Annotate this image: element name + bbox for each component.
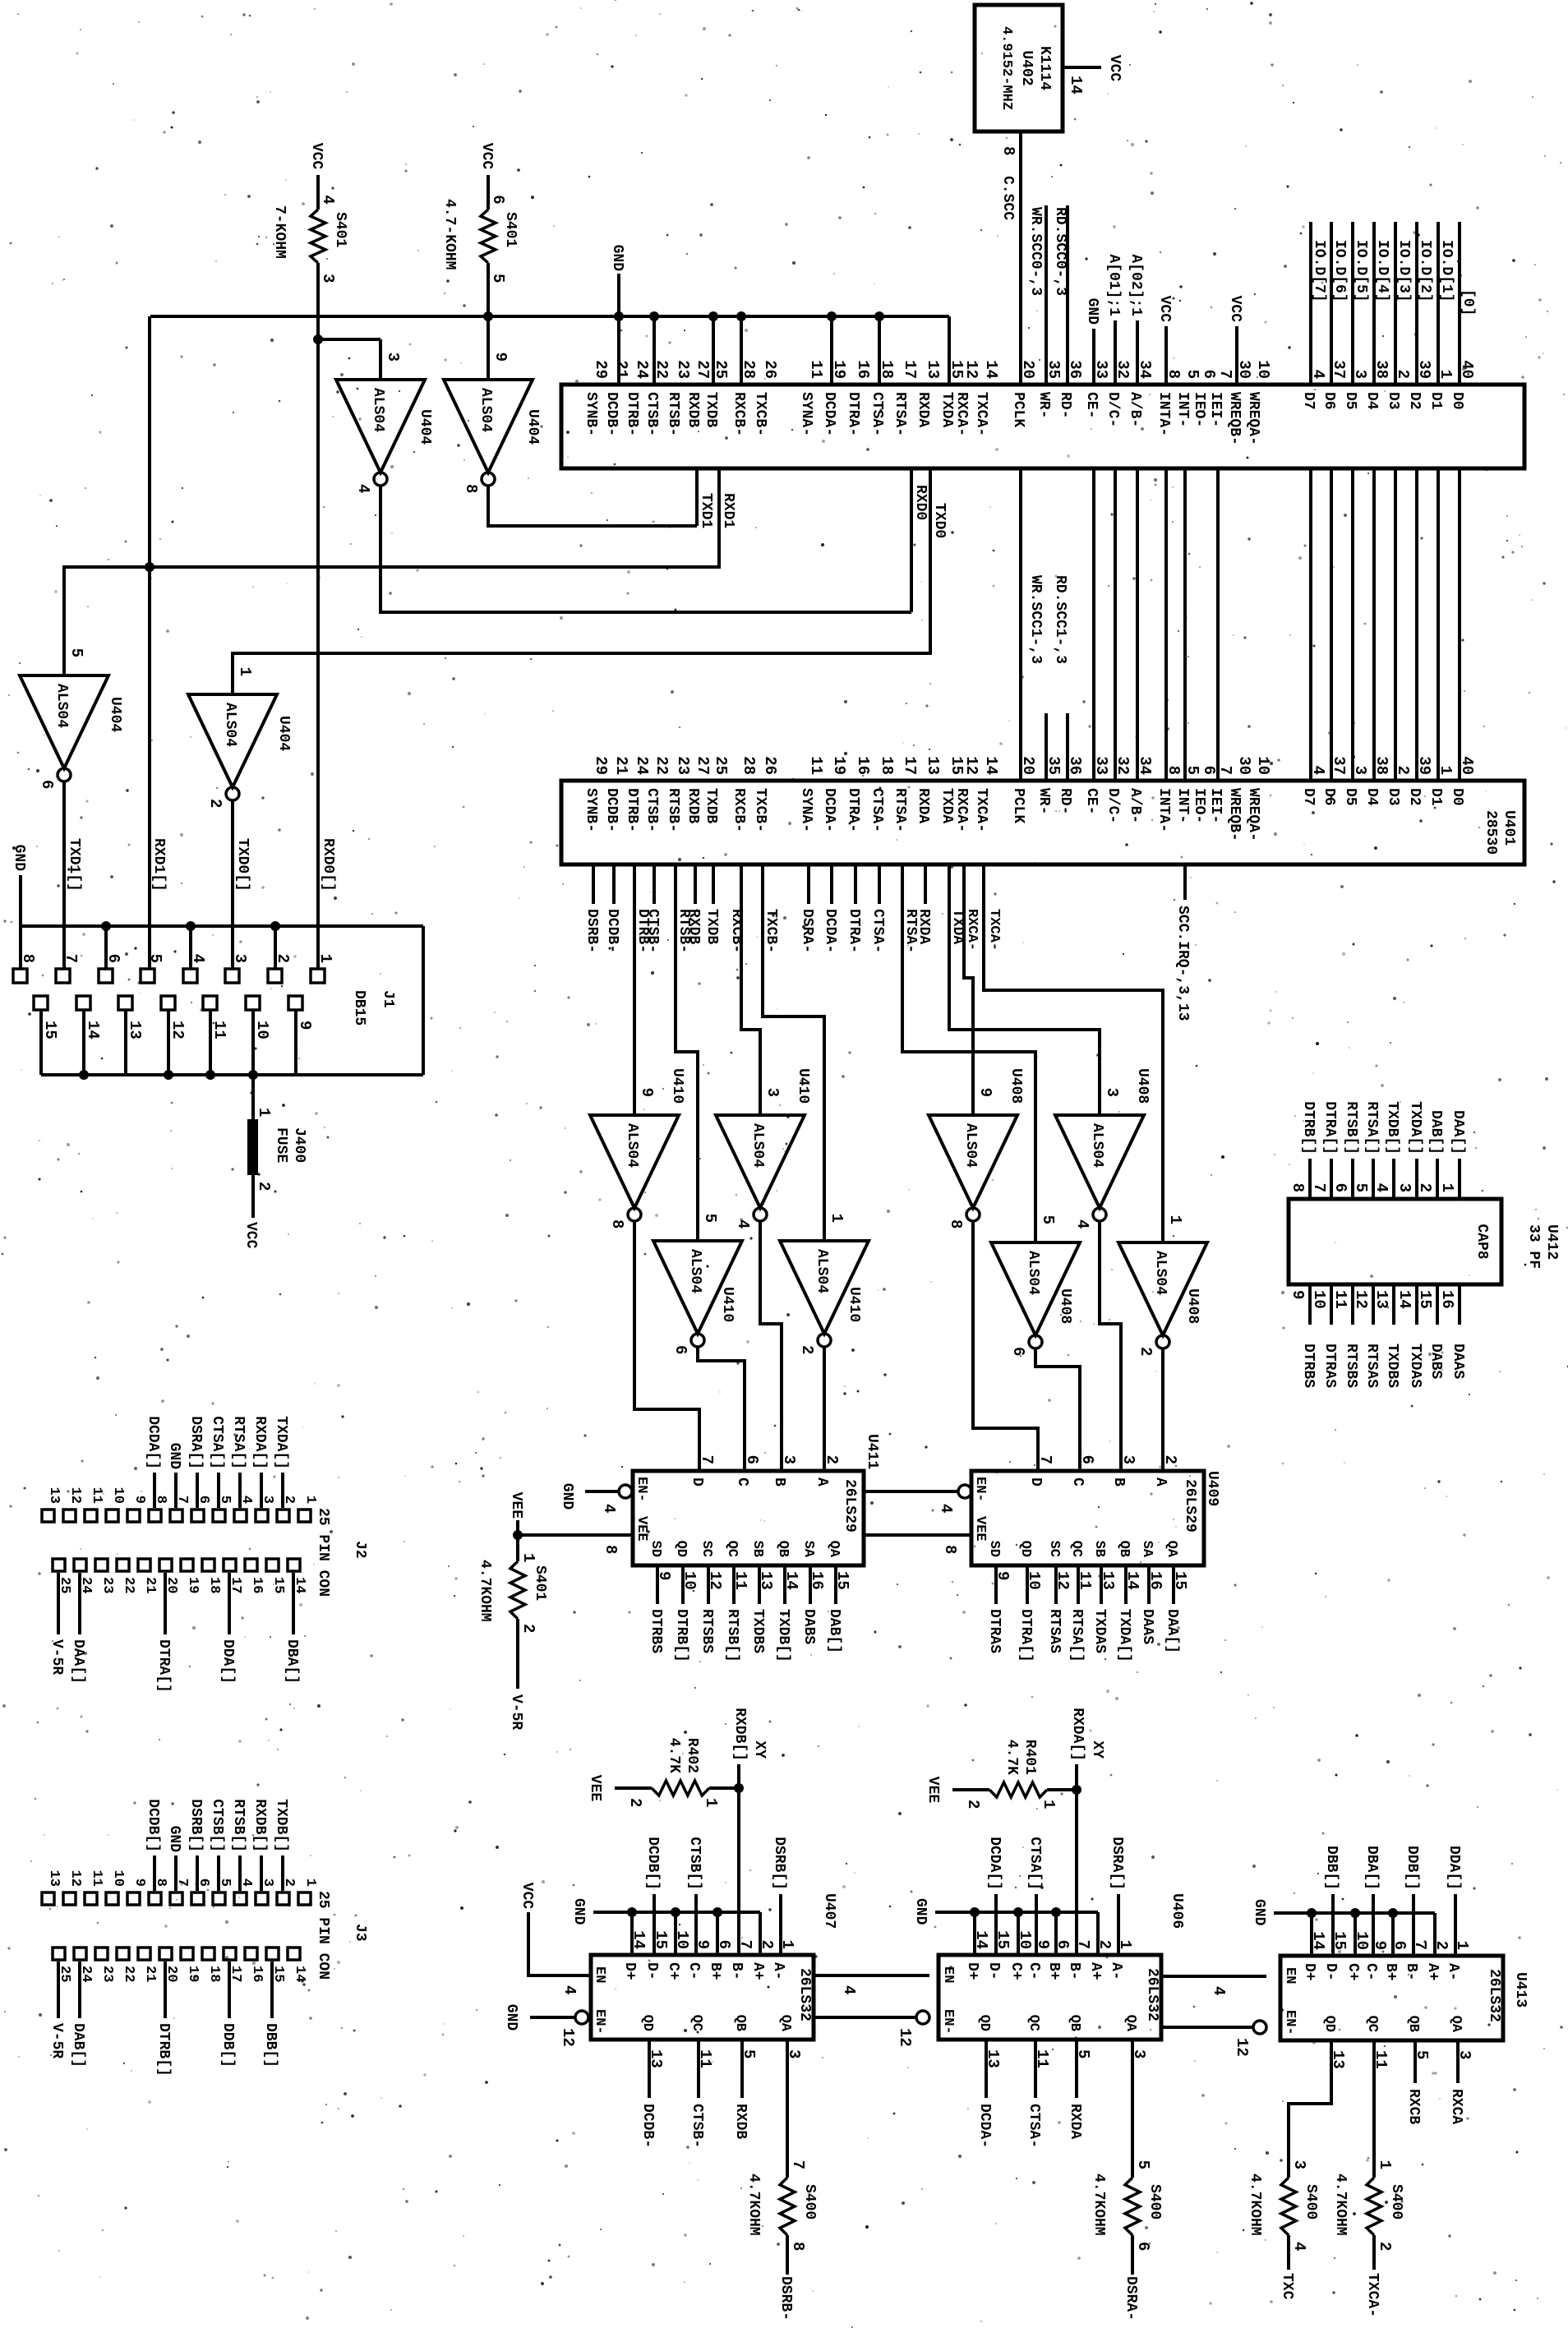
svg-text:DABS: DABS	[1427, 1344, 1444, 1379]
svg-text:RXDB: RXDB	[685, 392, 701, 427]
wire gate D output TXD0[] to J1 pin3	[233, 800, 251, 968]
svg-text:21: 21	[142, 1577, 158, 1593]
svg-text:CTSA-: CTSA-	[869, 392, 885, 436]
svg-text:GND: GND	[609, 245, 625, 272]
svg-text:D: D	[689, 1477, 705, 1487]
wire U413 EN pin 4 chained to U406	[1161, 1976, 1266, 1995]
svg-text:VCC: VCC	[242, 1222, 259, 1249]
svg-text:12: 12	[67, 1870, 83, 1887]
svg-text:IO.D[2]: IO.D[2]	[1417, 240, 1433, 302]
svg-text:DSRA-: DSRA-	[799, 909, 815, 953]
svg-text:D0: D0	[1449, 788, 1465, 806]
svg-text:DTRB[]: DTRB[]	[155, 2023, 172, 2077]
wire TXDA from SCC2 to U408-B input	[949, 865, 1100, 1115]
svg-text:EN-: EN-	[1282, 2010, 1298, 2035]
svg-text:2: 2	[964, 1800, 982, 1809]
svg-text:4: 4	[1372, 1183, 1390, 1192]
connector J2 row1 pins 1-13	[42, 1416, 318, 1522]
svg-text:DCDA-: DCDA-	[822, 909, 838, 953]
svg-text:DBA[]: DBA[]	[284, 1639, 300, 1684]
svg-text:11: 11	[731, 1571, 749, 1590]
svg-text:RXDA: RXDA	[1067, 2104, 1083, 2139]
svg-text:5: 5	[489, 274, 507, 283]
svg-text:S401: S401	[502, 212, 519, 247]
svg-text:13: 13	[1372, 1290, 1390, 1309]
svg-text:D7: D7	[1300, 392, 1317, 410]
svg-text:SB: SB	[1091, 1541, 1107, 1557]
svg-text:TXCA-: TXCA-	[973, 392, 989, 436]
svg-text:RXD0: RXD0	[912, 485, 929, 520]
svg-text:16: 16	[854, 756, 872, 775]
svg-text:11: 11	[1331, 1290, 1349, 1309]
IC U401 SCC chip body #2 (28530)	[561, 781, 1524, 864]
connector J1 row2 pin squares 9-15	[34, 996, 314, 1080]
node RD.SCC0-;3 to pin 36 RD- of SCC1	[1052, 205, 1068, 385]
svg-text:RXCA-: RXCA-	[953, 392, 970, 436]
svg-text:U413: U413	[1512, 1972, 1529, 2008]
svg-text:5: 5	[67, 648, 85, 657]
svg-text:8: 8	[947, 1219, 965, 1229]
svg-text:C-: C-	[685, 1962, 702, 1980]
svg-text:D-: D-	[643, 1962, 660, 1980]
svg-text:U410: U410	[669, 1068, 685, 1104]
connector J1 DB15 outline	[21, 926, 423, 1075]
svg-text:TXDB: TXDB	[703, 788, 719, 823]
inverter U404 gate B pins 9-8	[444, 353, 541, 494]
svg-text:4: 4	[560, 1985, 579, 1994]
svg-text:WREQA-: WREQA-	[1245, 392, 1261, 445]
svg-text:VCC: VCC	[1227, 296, 1243, 323]
svg-text:D/C-: D/C-	[1105, 788, 1121, 823]
svg-text:TXD0[]: TXD0[]	[234, 838, 251, 892]
svg-text:4: 4	[319, 195, 337, 204]
svg-text:1: 1	[236, 667, 254, 676]
svg-text:DCDA-: DCDA-	[821, 392, 837, 436]
svg-text:RD-: RD-	[1057, 392, 1073, 418]
svg-text:D-: D-	[985, 1962, 1002, 1980]
svg-text:QC: QC	[1026, 2015, 1041, 2031]
svg-text:8: 8	[941, 1545, 959, 1554]
svg-text:INTA-: INTA-	[1155, 392, 1172, 436]
svg-text:VCC: VCC	[1156, 296, 1173, 323]
svg-text:DB15: DB15	[351, 990, 367, 1026]
svg-text:CTSA-: CTSA-	[1026, 2104, 1042, 2148]
svg-text:25 PIN CON: 25 PIN CON	[315, 1891, 331, 1980]
svg-text:1: 1	[255, 1108, 273, 1117]
node RXD0[] label on J1 pin1 line	[320, 838, 336, 892]
wire U410-C output to U411 pin C	[698, 1347, 745, 1471]
svg-text:18: 18	[206, 1577, 222, 1593]
svg-text:RTSA[]: RTSA[]	[230, 1416, 247, 1469]
svg-text:IEO-: IEO-	[1191, 788, 1207, 823]
svg-text:4: 4	[937, 1504, 955, 1513]
svg-text:DCDA[]: DCDA[]	[145, 1416, 161, 1469]
svg-text:QD: QD	[673, 1541, 689, 1557]
svg-text:IO.D[3]: IO.D[3]	[1395, 240, 1412, 302]
connector J3 25 PIN CON	[315, 1891, 368, 1980]
resistor R401 4.7K with XY node to U406 B-	[925, 1708, 1105, 1955]
svg-text:30: 30	[1235, 756, 1253, 775]
svg-text:9: 9	[131, 1496, 147, 1504]
svg-text:DAB[]: DAB[]	[826, 1609, 842, 1653]
svg-text:[0]: [0]	[1460, 289, 1476, 316]
svg-text:RTSB[]: RTSB[]	[230, 1799, 247, 1852]
svg-text:CE-: CE-	[1083, 392, 1100, 418]
svg-text:12: 12	[706, 1571, 724, 1590]
wire TXD1 stub from SCC1 to gate B output	[697, 468, 714, 528]
svg-text:S400: S400	[1303, 2184, 1319, 2220]
svg-text:C-: C-	[1026, 1962, 1042, 1980]
resistor S400 4.7KOHM pins 5-6 on U406 QA to DSRA-	[1091, 2040, 1163, 2321]
svg-text:WR.SCC1-,3: WR.SCC1-,3	[1027, 575, 1044, 664]
svg-text:DTRBS: DTRBS	[648, 1609, 664, 1653]
svg-text:12: 12	[1054, 1571, 1072, 1590]
svg-text:RXCB: RXCB	[1405, 2089, 1422, 2124]
svg-text:19: 19	[185, 1966, 201, 1982]
svg-text:ALS04: ALS04	[370, 388, 386, 432]
svg-text:RTSB-: RTSB-	[665, 788, 681, 832]
svg-text:12: 12	[67, 1487, 83, 1504]
svg-text:U404: U404	[524, 409, 541, 445]
svg-text:6: 6	[1331, 1183, 1349, 1192]
svg-text:4.7KOHM: 4.7KOHM	[1332, 2174, 1349, 2236]
svg-text:DAB[]: DAB[]	[1427, 1110, 1444, 1155]
resistor R402 4.7K with XY node to U407 B-	[587, 1708, 768, 1955]
svg-text:V-5R: V-5R	[508, 1694, 524, 1730]
svg-text:TXCB-: TXCB-	[752, 392, 768, 436]
svg-text:3: 3	[780, 1455, 798, 1464]
svg-text:QB: QB	[1067, 2015, 1082, 2031]
svg-text:B+: B+	[1045, 1962, 1062, 1980]
svg-text:EN-: EN-	[972, 1477, 988, 1502]
svg-text:RTSA[]: RTSA[]	[1068, 1609, 1085, 1662]
svg-text:9: 9	[1289, 1290, 1307, 1299]
inverter U410 gate D pins 1-2	[780, 1214, 869, 1355]
wire RTSB- from SCC2 to U410-C input	[676, 865, 698, 1241]
svg-text:9: 9	[976, 1088, 994, 1097]
wire gate B output to TXD1 stub of SCC1	[488, 486, 697, 526]
svg-text:C: C	[734, 1477, 750, 1487]
svg-text:VEE: VEE	[508, 1492, 524, 1519]
svg-text:QC: QC	[724, 1541, 740, 1557]
svg-text:4.7-KOHM: 4.7-KOHM	[441, 199, 458, 270]
svg-text:QD: QD	[1321, 2016, 1337, 2032]
svg-text:INTA-: INTA-	[1155, 788, 1172, 832]
svg-text:U410: U410	[795, 1068, 811, 1104]
svg-text:ALS04: ALS04	[749, 1123, 766, 1168]
svg-text:D: D	[1027, 1477, 1044, 1487]
svg-text:RXDB: RXDB	[732, 2104, 749, 2139]
svg-text:5: 5	[1134, 2160, 1152, 2169]
input net labels of U407	[644, 1837, 787, 1955]
wire data bus IO.D[0..7] segments	[1311, 222, 1460, 781]
svg-text:QB: QB	[732, 2015, 748, 2031]
svg-text:DSRB[]: DSRB[]	[771, 1837, 787, 1890]
svg-text:D2: D2	[1406, 788, 1423, 806]
svg-text:RXDA[]: RXDA[]	[1069, 1708, 1086, 1761]
svg-text:GND: GND	[166, 1826, 182, 1853]
svg-text:13: 13	[46, 1487, 62, 1504]
svg-text:26LS29: 26LS29	[842, 1479, 858, 1533]
svg-text:14: 14	[292, 1966, 307, 1982]
resistor S401 4.7-KOHM pullup on gate U404-9 input	[441, 143, 519, 380]
svg-text:9: 9	[994, 1571, 1012, 1580]
svg-text:VCC: VCC	[519, 1883, 535, 1910]
svg-text:IO.D[6]: IO.D[6]	[1331, 240, 1348, 302]
svg-text:4.7KOHM: 4.7KOHM	[745, 2174, 762, 2236]
svg-text:10: 10	[1025, 1571, 1043, 1590]
wire U410-B output to U411 pin B	[760, 1221, 782, 1471]
svg-text:C-: C-	[1363, 1963, 1379, 1981]
svg-text:ALS04: ALS04	[53, 684, 70, 728]
svg-text:QB: QB	[1116, 1541, 1132, 1557]
capacitor pack U412 CAP8 33 PF	[1289, 1199, 1560, 1284]
wire gate C output TXD1[] to J1 pin7	[64, 781, 82, 968]
svg-text:5: 5	[1039, 1215, 1057, 1224]
svg-text:29: 29	[592, 756, 610, 775]
svg-text:CTSB[]: CTSB[]	[209, 1799, 225, 1852]
svg-text:RD.SCC1-,3: RD.SCC1-,3	[1052, 575, 1068, 664]
U407 input pins	[621, 1930, 796, 1980]
connector J2 row2 pins 14-25	[48, 1559, 307, 1693]
crystal K1114 U402 4.9152-MHZ	[975, 5, 1063, 131]
wire TXCA- from SCC2 to U408-D input	[984, 865, 1163, 1242]
svg-text:22: 22	[653, 756, 671, 775]
svg-text:DBB[]: DBB[]	[1323, 1846, 1340, 1890]
svg-text:SYNA-: SYNA-	[798, 788, 814, 832]
svg-text:14: 14	[982, 756, 1000, 775]
svg-text:ALS04: ALS04	[1152, 1251, 1169, 1295]
svg-text:TXCA-: TXCA-	[973, 788, 989, 832]
svg-text:6: 6	[1200, 370, 1218, 379]
svg-text:D4: D4	[1363, 788, 1380, 806]
svg-text:RTSB-: RTSB-	[676, 909, 692, 953]
svg-text:DAA[]: DAA[]	[1164, 1609, 1180, 1653]
svg-text:CTSB-: CTSB-	[643, 788, 660, 832]
svg-text:16: 16	[854, 360, 872, 379]
svg-text:U412: U412	[1543, 1224, 1560, 1260]
wire TXD0 from SCC1 TXDA to gate D input	[233, 468, 948, 694]
svg-text:C.SCC: C.SCC	[999, 176, 1016, 220]
svg-text:25: 25	[712, 756, 730, 775]
svg-text:U411: U411	[864, 1434, 880, 1469]
pin numbers and names of SCC #1	[583, 360, 1476, 445]
svg-text:U404: U404	[275, 716, 292, 751]
svg-text:23: 23	[674, 756, 692, 775]
svg-text:GND: GND	[503, 2004, 519, 2031]
svg-text:IO.D[1]: IO.D[1]	[1438, 240, 1455, 302]
svg-text:10: 10	[253, 1021, 271, 1040]
svg-text:5: 5	[701, 1214, 719, 1223]
ground GND bus on U407 inputs	[570, 1898, 760, 1955]
svg-text:DSRA[]: DSRA[]	[1109, 1837, 1125, 1890]
svg-text:INT-: INT-	[1174, 392, 1191, 427]
node SCC.IRQ-;3;13 from SCC2 INT-	[1174, 865, 1191, 1021]
svg-text:10: 10	[110, 1487, 126, 1504]
svg-text:FUSE: FUSE	[273, 1127, 289, 1163]
svg-text:ALS04: ALS04	[1089, 1123, 1105, 1168]
node A[01];1 to pin 32 D/C- of SCC1	[1105, 254, 1122, 385]
svg-text:DAAS: DAAS	[1450, 1344, 1466, 1379]
inverter U404 gate D pins 1-2	[188, 667, 292, 809]
resistor S401 7-KOHM pullup on RXD0 line	[271, 143, 348, 968]
svg-text:GND: GND	[1251, 1899, 1267, 1926]
svg-text:21: 21	[612, 360, 630, 379]
svg-text:S400: S400	[801, 2184, 818, 2220]
svg-text:DSRB[]: DSRB[]	[187, 1799, 204, 1852]
svg-text:2: 2	[255, 1182, 273, 1191]
svg-text:C+: C+	[665, 1962, 681, 1980]
svg-text:RTSA-: RTSA-	[892, 392, 908, 436]
svg-text:A+: A+	[749, 1962, 766, 1980]
svg-text:16: 16	[249, 1966, 265, 1982]
svg-text:CE-: CE-	[1083, 788, 1100, 814]
svg-text:10: 10	[680, 1571, 699, 1590]
U406 outputs to labels and resistor	[976, 2040, 1083, 2148]
svg-text:SA: SA	[1139, 1541, 1155, 1558]
node WR.SCC0-;3 to pin 35 WR- of SCC1	[1027, 205, 1046, 385]
wire GND to U411 EN- pin 4	[559, 1483, 632, 1514]
svg-text:SYNA-: SYNA-	[798, 392, 814, 436]
svg-text:GND: GND	[570, 1898, 587, 1925]
svg-text:QA: QA	[1164, 1541, 1179, 1558]
svg-text:RTSBS: RTSBS	[699, 1609, 715, 1653]
svg-text:CTSB-: CTSB-	[643, 392, 660, 436]
svg-text:C+: C+	[1008, 1962, 1024, 1980]
wire U410-D output to U411 pin A	[823, 1347, 826, 1471]
wire RXCA- from SCC2 to U408-A input	[964, 865, 973, 1115]
svg-text:A[02];1: A[02];1	[1128, 254, 1144, 316]
svg-text:RTSB[]: RTSB[]	[724, 1609, 740, 1662]
svg-text:XY: XY	[1089, 1740, 1105, 1759]
inverter U408 gate A pins 9-8	[929, 1068, 1024, 1229]
svg-text:1: 1	[1166, 1215, 1184, 1224]
svg-text:B-: B-	[1403, 1963, 1419, 1981]
svg-text:15: 15	[1416, 1290, 1434, 1309]
svg-text:U401: U401	[1501, 810, 1517, 846]
svg-text:CTSA[]: CTSA[]	[1026, 1837, 1043, 1890]
wire U408-C output to U409 pin C	[1035, 1348, 1080, 1471]
svg-text:15: 15	[1171, 1571, 1189, 1590]
svg-text:DCDA-: DCDA-	[976, 2104, 993, 2148]
svg-text:DTRA[]: DTRA[]	[1017, 1609, 1034, 1662]
wire U410-A output to U411 pin D	[634, 1221, 699, 1471]
svg-text:VCC: VCC	[1106, 55, 1123, 82]
svg-text:QB: QB	[1405, 2016, 1421, 2032]
svg-text:U404: U404	[417, 409, 433, 445]
svg-text:A-: A-	[1445, 1963, 1461, 1981]
U406 output pins Q	[976, 2015, 1148, 2068]
svg-text:8: 8	[1289, 1183, 1307, 1192]
svg-text:8: 8	[999, 146, 1017, 155]
svg-text:3: 3	[1103, 1088, 1121, 1097]
svg-text:RXDA[]: RXDA[]	[251, 1416, 268, 1469]
input net labels of U406	[986, 1837, 1125, 1955]
svg-text:DTRB-: DTRB-	[624, 392, 640, 436]
svg-text:26: 26	[761, 360, 779, 379]
svg-text:2: 2	[1161, 1455, 1179, 1464]
svg-text:DCDB-: DCDB-	[603, 788, 620, 832]
svg-text:B: B	[771, 1477, 787, 1487]
svg-text:GND: GND	[559, 1483, 575, 1510]
svg-text:S401: S401	[532, 1565, 548, 1601]
svg-text:8: 8	[789, 2242, 807, 2251]
node labels on long nets from SCC2	[634, 909, 1002, 953]
svg-text:6: 6	[1200, 766, 1218, 775]
svg-text:QD: QD	[639, 2015, 655, 2031]
svg-text:14: 14	[1123, 1571, 1141, 1590]
ground GND label on bus	[609, 245, 625, 316]
U411 output pins and labels	[648, 1541, 851, 1662]
power VCC tie to pin 30 WREQB- of SCC1	[1227, 296, 1243, 385]
svg-text:IEO-: IEO-	[1191, 392, 1207, 427]
svg-text:TXCA-: TXCA-	[986, 909, 1002, 951]
svg-text:22: 22	[121, 1966, 136, 1982]
svg-text:11: 11	[807, 360, 825, 379]
U413 output pins Q	[1321, 2016, 1473, 2069]
svg-text:DCDB[]: DCDB[]	[145, 1799, 161, 1852]
wire U408-B output to U409 pin B	[1100, 1221, 1121, 1471]
svg-text:PCLK: PCLK	[1010, 788, 1026, 823]
svg-text:ALS04: ALS04	[814, 1249, 830, 1293]
svg-text:K1114: K1114	[1036, 46, 1053, 90]
svg-text:1: 1	[702, 1798, 720, 1807]
svg-text:QA: QA	[1448, 2016, 1464, 2033]
svg-text:RXDA: RXDA	[915, 788, 931, 823]
svg-text:CTSB-: CTSB-	[689, 2104, 705, 2148]
svg-text:QD: QD	[1017, 1541, 1033, 1557]
input net labels of U413	[1323, 1846, 1462, 1956]
U412 right pins 16-9 with net labels	[1289, 1284, 1466, 1388]
svg-text:DSRA-: DSRA-	[1123, 2276, 1139, 2321]
svg-text:DTRA[]: DTRA[]	[155, 1639, 172, 1693]
wire bus at X385 with taps to SCC1 pins	[150, 311, 949, 385]
IC U409 26LS29 quad driver	[971, 1455, 1220, 1565]
svg-text:DTRAS: DTRAS	[1321, 1344, 1338, 1388]
svg-text:ALS04: ALS04	[624, 1123, 640, 1168]
svg-text:13: 13	[757, 1571, 775, 1590]
svg-text:VEE: VEE	[634, 1516, 649, 1542]
svg-text:QA: QA	[1123, 2015, 1138, 2032]
svg-text:DTRA[]: DTRA[]	[1321, 1101, 1338, 1155]
wire U408-A output to U409 pin D	[973, 1221, 1038, 1471]
svg-text:SB: SB	[749, 1541, 765, 1557]
inside labels EN EN- of U413	[1282, 1967, 1298, 2035]
IC U407 26LS32 quad receiver	[591, 1893, 837, 2040]
resistor S400 4.7KOHM pins 7-8 on U407 QA to DSRB-	[745, 2040, 818, 2321]
svg-text:ALS04: ALS04	[1025, 1251, 1041, 1295]
svg-text:B+: B+	[707, 1962, 723, 1980]
svg-text:3: 3	[1395, 1183, 1414, 1192]
svg-text:28: 28	[740, 756, 758, 775]
svg-text:10: 10	[1254, 360, 1272, 379]
svg-text:18: 18	[878, 756, 896, 775]
svg-text:TXDA[]: TXDA[]	[273, 1416, 289, 1469]
svg-text:VCC: VCC	[308, 143, 325, 170]
svg-text:1: 1	[1438, 1183, 1456, 1192]
svg-text:WR-: WR-	[1035, 392, 1052, 418]
svg-text:INT-: INT-	[1174, 788, 1191, 823]
svg-text:TXC: TXC	[1279, 2273, 1295, 2300]
svg-text:D2: D2	[1406, 392, 1423, 410]
ground GND bus on U413 inputs	[1251, 1899, 1435, 1956]
wire U406 EN pin 4 chained to U407	[814, 1975, 929, 1994]
wire RXD0 stub from SCC1 RXDA	[911, 468, 929, 612]
svg-text:QC: QC	[689, 2015, 704, 2031]
svg-text:CTSB[]: CTSB[]	[686, 1837, 703, 1890]
svg-text:CAP8: CAP8	[1473, 1224, 1490, 1259]
svg-text:WREQB-: WREQB-	[1226, 392, 1243, 445]
